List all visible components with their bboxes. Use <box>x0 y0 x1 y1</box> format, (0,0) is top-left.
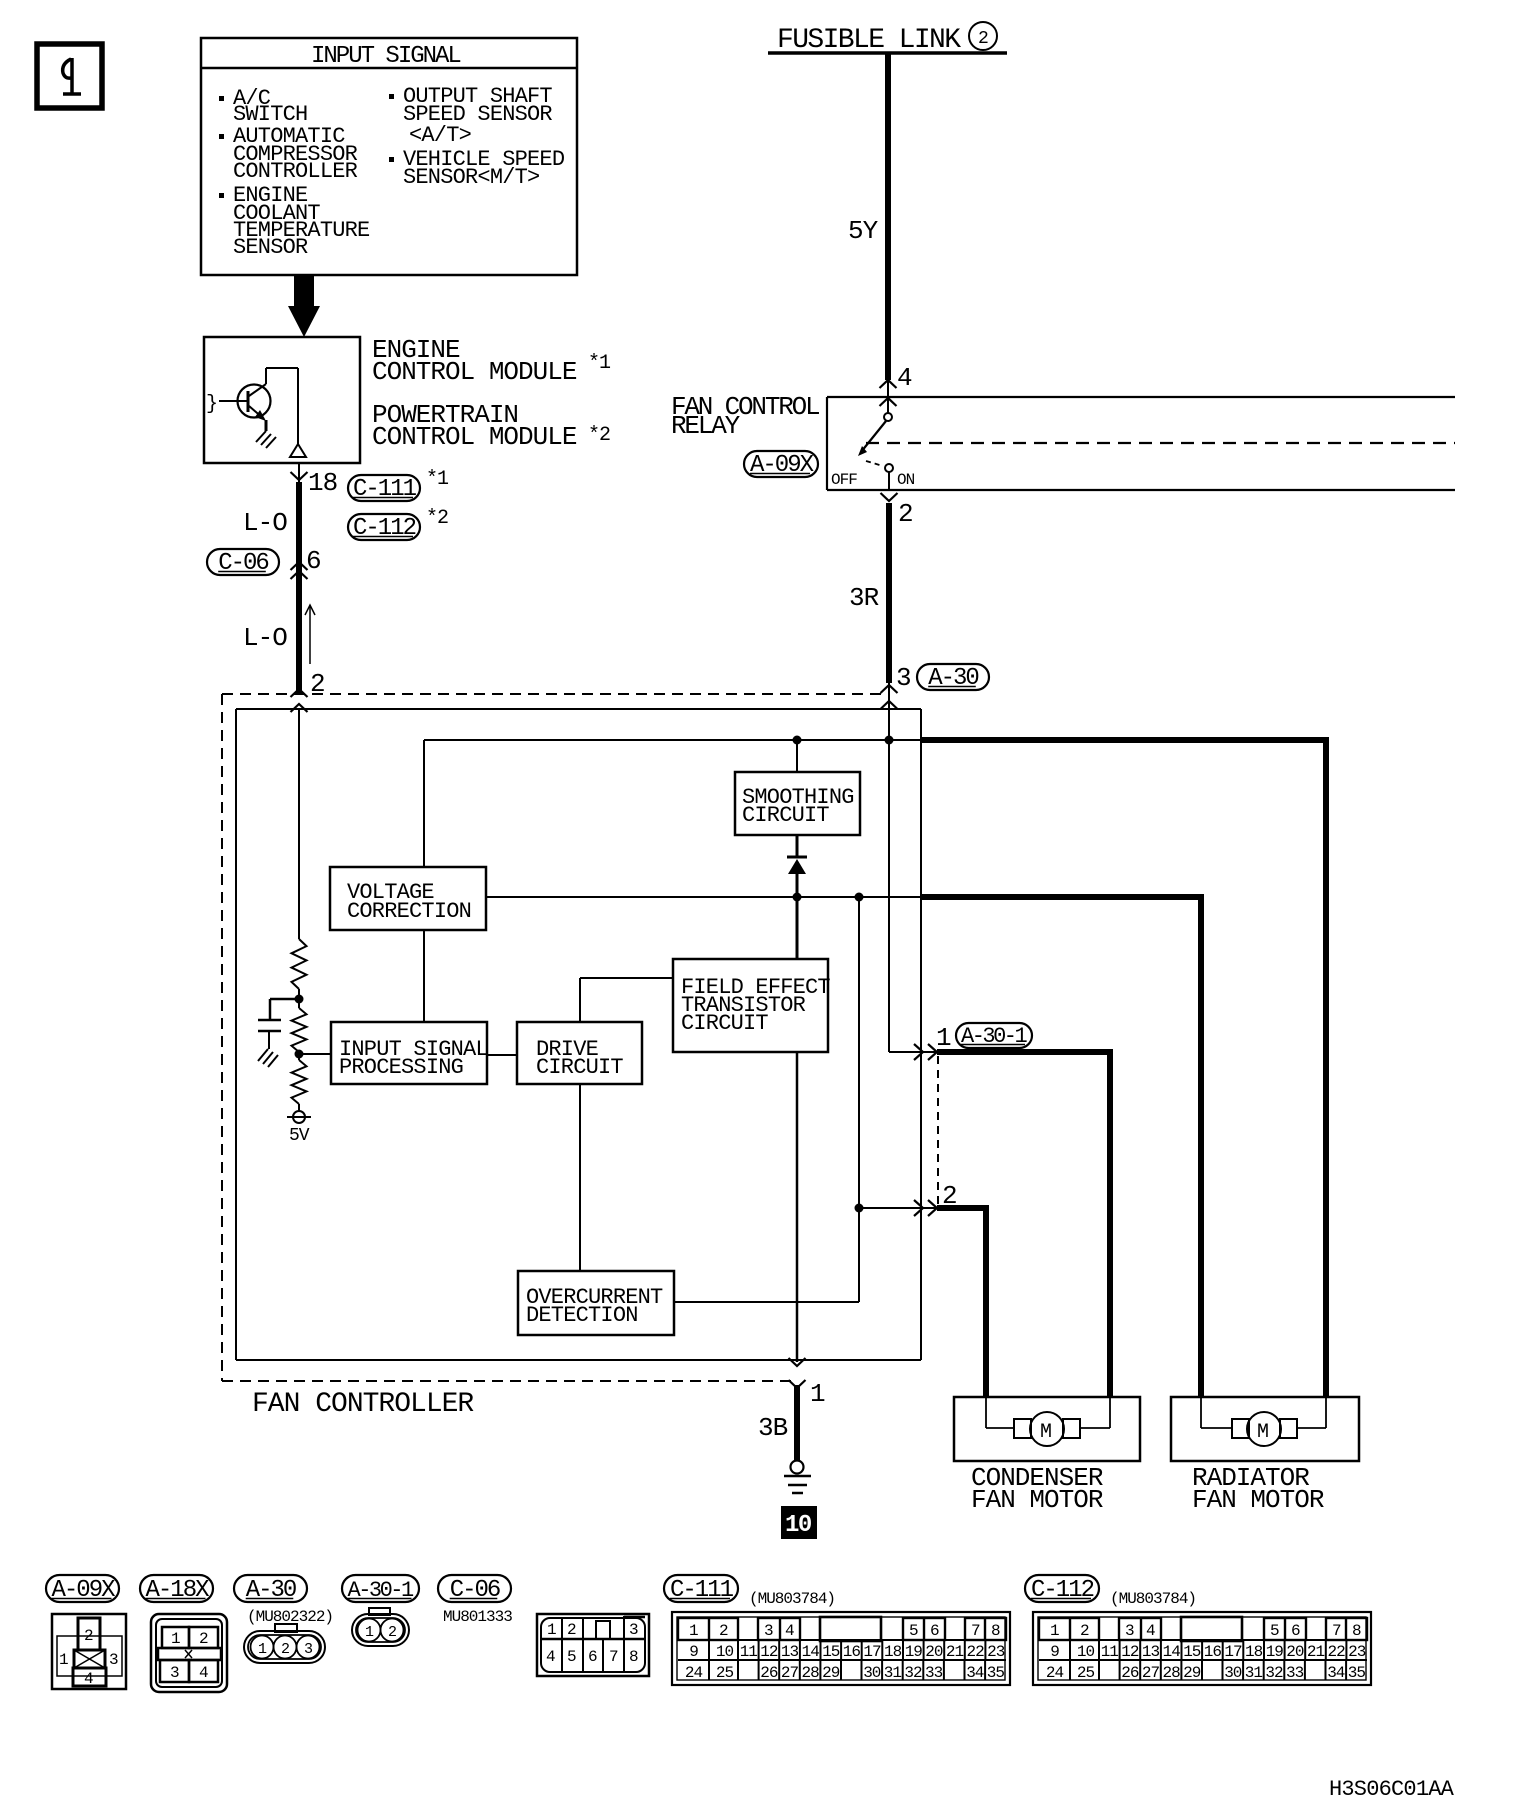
svg-text:1: 1 <box>171 1630 180 1648</box>
svg-text:34: 34 <box>966 1664 984 1682</box>
connector capsule A-09X <box>744 451 818 477</box>
svg-text:30: 30 <box>1224 1664 1242 1682</box>
svg-text:1: 1 <box>59 1651 68 1669</box>
svg-text:7: 7 <box>1332 1622 1341 1640</box>
svg-text:3: 3 <box>764 1622 773 1640</box>
svg-text:17: 17 <box>863 1643 881 1661</box>
svg-text:24: 24 <box>685 1664 703 1682</box>
node: smoothing tap <box>793 736 802 745</box>
connector capsule C-06 <box>438 1575 511 1602</box>
direction arrow <box>309 606 311 664</box>
VOLTAGE CORRECTION box <box>330 867 486 930</box>
thick wire to condenser left <box>937 1205 989 1211</box>
connector A-30-1 pinout <box>369 1608 390 1615</box>
svg-text:3B: 3B <box>758 1413 788 1443</box>
relay switch <box>884 413 892 421</box>
svg-text:A-09X: A-09X <box>52 1577 116 1604</box>
svg-text:33: 33 <box>1286 1664 1304 1682</box>
wire smoothing top <box>796 740 798 772</box>
wire to divider <box>298 709 300 939</box>
svg-text:5: 5 <box>909 1622 918 1640</box>
ground marker 10 <box>781 1506 817 1539</box>
svg-text:CIRCUIT: CIRCUIT <box>536 1055 623 1080</box>
svg-text:2: 2 <box>281 1641 289 1658</box>
svg-text:SENSOR: SENSOR <box>233 235 308 260</box>
svg-text:26: 26 <box>760 1664 778 1682</box>
svg-text:25: 25 <box>716 1664 734 1682</box>
svg-text:CONTROL MODULE: CONTROL MODULE <box>372 357 577 387</box>
VC bus thick wire to radiator <box>921 894 1204 900</box>
svg-text:3: 3 <box>304 1641 313 1658</box>
diode D1 <box>787 856 807 859</box>
svg-text:8: 8 <box>1352 1622 1361 1640</box>
motor M (radiator) <box>1200 1397 1202 1428</box>
pin 6 chevrons <box>291 562 308 570</box>
DRIVE CIRCUIT box <box>517 1022 642 1084</box>
page number box 1 <box>37 44 102 108</box>
svg-text:FAN MOTOR: FAN MOTOR <box>1192 1485 1324 1515</box>
svg-text:*1: *1 <box>588 352 611 375</box>
FET output wire down <box>796 1052 799 1362</box>
svg-text:35: 35 <box>987 1664 1005 1682</box>
svg-text:8: 8 <box>991 1622 1000 1640</box>
svg-text:1: 1 <box>810 1379 825 1409</box>
svg-text:2: 2 <box>978 29 988 49</box>
svg-text:1: 1 <box>258 1641 267 1658</box>
svg-text:32: 32 <box>1265 1664 1283 1682</box>
radiator fan motor box <box>1171 1397 1359 1461</box>
svg-text:*2: *2 <box>588 424 610 447</box>
svg-text:31: 31 <box>1245 1664 1263 1682</box>
svg-text:4: 4 <box>897 363 912 393</box>
svg-text:15: 15 <box>1183 1643 1201 1661</box>
svg-text:MU801333: MU801333 <box>443 1608 512 1626</box>
svg-text:5V: 5V <box>289 1126 310 1146</box>
OVERCURRENT DETECTION box <box>518 1271 674 1335</box>
svg-text:21: 21 <box>1307 1643 1325 1661</box>
off-page triangle <box>290 444 306 457</box>
svg-text:C-111: C-111 <box>670 1577 734 1604</box>
wire L-O upper <box>296 482 302 694</box>
svg-text:A-18X: A-18X <box>146 1577 210 1604</box>
svg-text:34: 34 <box>1327 1664 1345 1682</box>
connector capsule C-111 ref <box>348 475 420 501</box>
svg-text:29: 29 <box>1183 1664 1201 1682</box>
svg-text:4: 4 <box>546 1648 555 1666</box>
svg-text:4: 4 <box>1146 1622 1155 1640</box>
emitter with arrow <box>249 406 264 419</box>
wire VC to ISP <box>423 930 425 1022</box>
svg-text:*2: *2 <box>426 507 448 530</box>
svg-text:6: 6 <box>930 1622 939 1640</box>
svg-text:6: 6 <box>306 546 321 576</box>
svg-text:DETECTION: DETECTION <box>526 1303 638 1328</box>
connector capsule A-18X <box>140 1575 213 1602</box>
svg-text:5: 5 <box>1270 1622 1279 1640</box>
VC output bus <box>486 896 921 898</box>
capacitor C1 <box>258 1019 281 1022</box>
svg-text:CORRECTION: CORRECTION <box>347 899 471 924</box>
overcurrent sense wires <box>674 1301 859 1303</box>
connector A-09X pinout <box>52 1614 126 1689</box>
pin 18 below ECM <box>298 463 300 482</box>
top bus wire <box>424 739 921 741</box>
resistor R3 <box>298 1054 300 1060</box>
resistor R1 <box>292 939 307 989</box>
svg-text:L-O: L-O <box>243 508 287 538</box>
svg-text:SENSOR<M/T>: SENSOR<M/T> <box>403 165 539 190</box>
wire DRIVE to overcurrent <box>579 1084 581 1271</box>
wire smoothing bottom <box>796 835 799 857</box>
svg-text:10: 10 <box>716 1643 734 1661</box>
svg-text:33: 33 <box>925 1664 943 1682</box>
svg-text:17: 17 <box>1224 1643 1242 1661</box>
svg-text:24: 24 <box>1046 1664 1064 1682</box>
connector capsule C-112 ref <box>348 514 420 540</box>
svg-text:2: 2 <box>310 669 325 699</box>
fan controller inner box <box>236 708 921 710</box>
svg-text:7: 7 <box>971 1622 980 1640</box>
svg-text:29: 29 <box>822 1664 840 1682</box>
pin 1 bottom / 3B <box>789 1358 806 1366</box>
wire ISP-DRIVE <box>487 1054 517 1056</box>
wire 3R <box>886 503 892 683</box>
svg-text:13: 13 <box>1142 1643 1160 1661</box>
svg-text:16: 16 <box>1204 1643 1222 1661</box>
ground (3B) <box>791 1461 804 1474</box>
connector capsule A-30-1 <box>342 1575 419 1602</box>
svg-text:C-112: C-112 <box>353 515 416 542</box>
thick wire to condenser right <box>937 1049 1113 1055</box>
svg-text:3: 3 <box>170 1664 179 1682</box>
connector capsule A-30-1 ref <box>956 1023 1032 1048</box>
svg-text:4: 4 <box>199 1664 208 1682</box>
condenser fan motor box <box>954 1397 1140 1461</box>
svg-text:18: 18 <box>884 1643 902 1661</box>
svg-text:16: 16 <box>843 1643 861 1661</box>
svg-text:FAN CONTROLLER: FAN CONTROLLER <box>252 1389 474 1420</box>
SMOOTHING CIRCUIT box <box>735 772 860 835</box>
svg-text:2: 2 <box>898 499 913 529</box>
pin 2 of relay <box>881 493 898 501</box>
svg-text:C-111: C-111 <box>353 476 417 503</box>
connector capsule C-112 <box>1025 1575 1099 1602</box>
svg-text:C-06: C-06 <box>218 550 268 577</box>
svg-text:31: 31 <box>884 1664 902 1682</box>
svg-text:35: 35 <box>1348 1664 1366 1682</box>
transistor Q1 <box>238 385 271 418</box>
connector A-18X pinout <box>151 1614 227 1692</box>
svg-text:ON: ON <box>897 471 915 489</box>
svg-text:1: 1 <box>689 1622 698 1640</box>
svg-text:1: 1 <box>547 1621 556 1639</box>
svg-text:10: 10 <box>1077 1643 1095 1661</box>
svg-text:L-O: L-O <box>243 623 287 653</box>
wire to capacitor <box>270 998 299 1001</box>
node: A-30 junction <box>885 736 894 745</box>
svg-text:CONTROL MODULE: CONTROL MODULE <box>372 422 577 452</box>
svg-text:M: M <box>1040 1421 1051 1444</box>
connector capsule A-09X <box>46 1575 119 1602</box>
wire DRIVE to FET <box>579 978 581 1022</box>
svg-text:CIRCUIT: CIRCUIT <box>681 1011 768 1036</box>
svg-text:A-30: A-30 <box>928 665 978 692</box>
svg-text:14: 14 <box>1163 1643 1181 1661</box>
svg-text:6: 6 <box>588 1648 597 1666</box>
svg-text:PROCESSING: PROCESSING <box>339 1055 463 1080</box>
pin 1 wire (A-30-1) <box>888 740 890 1052</box>
svg-text:26: 26 <box>1121 1664 1139 1682</box>
svg-text:19: 19 <box>905 1643 923 1661</box>
svg-text:1: 1 <box>1050 1622 1059 1640</box>
connector capsule A-30 <box>234 1575 307 1602</box>
INPUT SIGNAL box <box>201 38 577 275</box>
arrow from input signal to ECM <box>288 275 320 337</box>
svg-text:INPUT SIGNAL: INPUT SIGNAL <box>311 43 460 70</box>
svg-text:11: 11 <box>740 1643 758 1661</box>
FIELD EFFECT TRANSISTOR CIRCUIT box <box>673 959 828 1052</box>
svg-text:5: 5 <box>567 1648 576 1666</box>
ground (transistor emitter) <box>256 431 266 442</box>
svg-text:13: 13 <box>781 1643 799 1661</box>
svg-text:3R: 3R <box>849 583 879 613</box>
svg-text:CIRCUIT: CIRCUIT <box>742 803 829 828</box>
svg-text:6: 6 <box>1291 1622 1300 1640</box>
svg-text:3: 3 <box>896 663 911 693</box>
svg-text:A-09X: A-09X <box>750 452 814 479</box>
svg-text:22: 22 <box>1328 1643 1346 1661</box>
svg-text:2: 2 <box>199 1630 208 1648</box>
svg-text:20: 20 <box>925 1643 943 1661</box>
node: diode bottom <box>793 893 802 902</box>
svg-text:9: 9 <box>689 1643 698 1661</box>
pin 2 wire (A-30-1) <box>859 1207 936 1209</box>
top bus thick wire to radiator <box>921 737 1329 743</box>
svg-text:22: 22 <box>967 1643 985 1661</box>
svg-text:10: 10 <box>785 1512 812 1539</box>
svg-text:25: 25 <box>1077 1664 1095 1682</box>
svg-text:3: 3 <box>1125 1622 1134 1640</box>
svg-text:12: 12 <box>760 1643 778 1661</box>
wire 5Y <box>885 54 891 380</box>
svg-text:*1: *1 <box>426 468 449 491</box>
svg-text:H3S06C01AA: H3S06C01AA <box>1329 1777 1455 1802</box>
svg-text:3: 3 <box>629 1621 638 1639</box>
svg-text:C-112: C-112 <box>1031 1577 1094 1604</box>
svg-text:18: 18 <box>1245 1643 1263 1661</box>
svg-text:28: 28 <box>1163 1664 1181 1682</box>
svg-text:1: 1 <box>365 1624 374 1641</box>
svg-text:2: 2 <box>388 1624 396 1641</box>
svg-text:23: 23 <box>987 1643 1005 1661</box>
svg-text:8: 8 <box>629 1648 638 1666</box>
svg-text:(MU803784): (MU803784) <box>749 1590 835 1608</box>
fan controller dashed box <box>221 694 223 1381</box>
svg-text:21: 21 <box>946 1643 964 1661</box>
junction node <box>295 1050 304 1059</box>
svg-text:RELAY: RELAY <box>671 411 741 441</box>
resistor R2 <box>298 999 300 1008</box>
svg-text:7: 7 <box>609 1648 618 1666</box>
svg-text:11: 11 <box>1101 1643 1119 1661</box>
svg-text:<A/T>: <A/T> <box>409 123 471 148</box>
connector capsule C-111 <box>664 1575 738 1602</box>
svg-text:2: 2 <box>719 1622 728 1640</box>
ground (capacitor) <box>258 1049 268 1061</box>
svg-text:18: 18 <box>308 468 337 498</box>
svg-text:M: M <box>1257 1421 1268 1444</box>
svg-text:5Y: 5Y <box>848 216 879 246</box>
svg-text:12: 12 <box>1121 1643 1139 1661</box>
svg-text:14: 14 <box>802 1643 820 1661</box>
svg-text:2: 2 <box>1080 1622 1089 1640</box>
connector capsule C-06 ref <box>207 549 279 575</box>
svg-text:A-30: A-30 <box>246 1577 296 1604</box>
svg-text:OFF: OFF <box>831 471 857 489</box>
svg-text:27: 27 <box>1142 1664 1160 1682</box>
svg-text:20: 20 <box>1286 1643 1304 1661</box>
node: branch down <box>855 893 864 902</box>
svg-text:27: 27 <box>781 1664 799 1682</box>
INPUT SIGNAL PROCESSING box <box>331 1022 487 1084</box>
svg-text:1: 1 <box>936 1023 951 1053</box>
junction node <box>295 995 304 1004</box>
svg-text:32: 32 <box>904 1664 922 1682</box>
svg-text:3: 3 <box>109 1651 118 1669</box>
wire VC top <box>423 740 425 867</box>
node: pin2 branch <box>855 1204 864 1213</box>
svg-text:2: 2 <box>567 1621 576 1639</box>
svg-text:CONTROLLER: CONTROLLER <box>233 159 358 184</box>
ECM / PCM box <box>204 337 360 463</box>
collector wire <box>249 384 266 396</box>
svg-text:FAN MOTOR: FAN MOTOR <box>971 1485 1103 1515</box>
5V supply terminal <box>293 1111 305 1123</box>
svg-text:C-06: C-06 <box>450 1577 500 1604</box>
svg-text:30: 30 <box>863 1664 881 1682</box>
svg-text:(MU803784): (MU803784) <box>1110 1590 1196 1608</box>
connector A-30-1 dashed boundary <box>937 1056 939 1204</box>
svg-text:28: 28 <box>802 1664 820 1682</box>
svg-text:}: } <box>206 393 217 416</box>
svg-text:4: 4 <box>785 1622 794 1640</box>
svg-text:9: 9 <box>1050 1643 1059 1661</box>
svg-text:19: 19 <box>1266 1643 1284 1661</box>
svg-text:23: 23 <box>1348 1643 1366 1661</box>
svg-text:2: 2 <box>84 1627 93 1645</box>
svg-text:4: 4 <box>84 1670 93 1688</box>
relay box <box>827 396 1455 398</box>
motor M (condenser) <box>985 1397 987 1428</box>
svg-text:15: 15 <box>822 1643 840 1661</box>
